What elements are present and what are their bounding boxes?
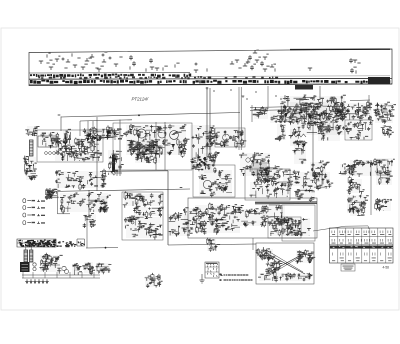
wire [57, 192, 59, 214]
junction [138, 114, 140, 116]
AVC filter parts [275, 124, 286, 141]
antenna input components [25, 126, 39, 136]
parts list strip [17, 239, 56, 247]
trimmer circles [246, 158, 250, 162]
wire [80, 120, 132, 121]
heavy screened lead [255, 201, 317, 203]
heater twin leads [238, 87, 240, 150]
plug contact marks [37, 200, 45, 224]
output grid parts [282, 218, 311, 236]
output tube envelope B [274, 263, 280, 269]
B+ supply bus wire [61, 113, 240, 118]
wire [319, 86, 321, 100]
antenna ground parts [25, 168, 38, 180]
second IF tube parts [308, 111, 332, 128]
junction [105, 247, 107, 249]
dial lamp feed parts [145, 273, 163, 288]
dial lamp socket 1 [23, 199, 26, 203]
audio output section enclosure [188, 198, 317, 238]
oscillator coil parts [215, 129, 247, 148]
tube V2 envelope [137, 129, 146, 138]
oscillator padder parts [253, 106, 269, 119]
detector box row 1 [123, 191, 164, 208]
wires to oscillator section [250, 107, 302, 108]
padder capacitor circle [223, 134, 230, 141]
interstage parts [206, 238, 220, 252]
wire [87, 121, 89, 136]
screen grid bus wire [100, 170, 168, 173]
RF amplifier V1 components [55, 137, 102, 161]
detector box row 2 [133, 205, 164, 218]
tone network parts [250, 180, 292, 198]
tiny marks left [100, 196, 108, 213]
label 6a [58, 115, 61, 116]
coupling parts right [339, 164, 357, 177]
output coupling pair B [375, 112, 394, 124]
wire [370, 160, 372, 215]
driver sub-enclosure [268, 217, 301, 238]
wire vertical from bus [60, 117, 62, 132]
wire [22, 274, 100, 276]
audio board row C [262, 205, 288, 227]
IF amp top components [345, 101, 372, 122]
phase splitter parts [256, 247, 276, 261]
right lower pair [375, 198, 392, 211]
pp right parts [295, 250, 315, 264]
connection code box [205, 262, 219, 278]
pilot lamp circles [33, 263, 36, 266]
right column parts [381, 125, 394, 138]
grid resistor group [63, 129, 71, 141]
chassis terminal strip panel outline [29, 49, 392, 86]
push-pull output enclosure [256, 243, 314, 284]
driver box parts [270, 219, 301, 237]
dial lamp socket 2 [23, 206, 26, 210]
terminal block [377, 160, 388, 175]
wire [252, 238, 254, 250]
tuning capacitor section [40, 132, 61, 148]
svg-text:PT2124/: PT2124/ [132, 97, 149, 102]
table header texture [333, 246, 393, 248]
wire [209, 88, 211, 160]
bias network row [60, 192, 111, 214]
wire [86, 218, 88, 248]
screen bypass capacitor group [87, 133, 101, 141]
band switch parts [205, 125, 215, 150]
phase inverter cross wires [266, 253, 305, 274]
tone control enclosure [245, 169, 290, 200]
cathode bias parts [292, 141, 307, 165]
ferrite rod antenna L1 [30, 140, 34, 156]
wire [251, 105, 253, 122]
IF transformer T2 [239, 152, 270, 178]
terminal strip capacitors and resistors [39, 50, 361, 74]
coil zigzag [291, 134, 306, 137]
socket top parts [45, 189, 57, 200]
tone cap parts [349, 206, 365, 216]
table lower cells [332, 253, 392, 262]
first audio V5 parts [198, 170, 232, 197]
driver input dense [254, 165, 283, 183]
switch wafer lower [204, 151, 220, 173]
dial lamp socket 3 [23, 213, 26, 217]
strip extension [57, 241, 77, 247]
converter stage enclosure [113, 123, 192, 170]
detector stage enclosure [122, 192, 163, 240]
IF stage dense section A [278, 95, 348, 122]
wire [155, 122, 157, 170]
ground symbol [200, 274, 205, 283]
pp bottom row [258, 271, 313, 282]
IF can core [252, 163, 269, 175]
stamped label below strip [295, 85, 313, 90]
volume control column [112, 150, 115, 172]
IF transformer T1 [190, 125, 215, 171]
output tube envelope A [268, 258, 275, 265]
ratio detector parts [350, 158, 379, 177]
mains transformer winding A [24, 246, 28, 262]
wire drops [23, 272, 94, 278]
screen dropper components [55, 169, 106, 191]
output transformer parts [300, 172, 333, 191]
label 5a [180, 187, 183, 188]
wire [96, 117, 98, 191]
tube V4 envelope [319, 114, 327, 122]
wire [321, 170, 323, 186]
dial lamp socket 4 [23, 221, 26, 225]
rectifier block [20, 262, 30, 272]
IF amplifier enclosure [345, 120, 372, 140]
neutralizing parts [317, 125, 342, 141]
RF input stage enclosure [37, 130, 103, 162]
filter parts [72, 263, 82, 275]
table pin tick marks [332, 231, 392, 244]
mains transformer winding B [30, 246, 33, 262]
output stage sub-enclosure [282, 205, 315, 241]
oscillator coil box [215, 128, 245, 147]
audio board row A [194, 203, 244, 235]
table footnote box [341, 264, 355, 271]
audio board row B [239, 208, 268, 227]
tuning gang box [38, 136, 57, 147]
chassis ground rail [25, 279, 48, 283]
svg-text:4-58: 4-58 [383, 266, 390, 270]
dark core marks [196, 156, 206, 170]
IF stage dense section B [288, 102, 347, 135]
legend note line 1 [220, 274, 248, 276]
IF transformer T3 interior [345, 120, 373, 140]
antenna coupling parts [23, 156, 37, 172]
oscillator grid parts [127, 139, 160, 153]
tube V3 envelope [158, 130, 166, 138]
wire [164, 122, 166, 170]
wire [350, 99, 370, 102]
switch contact circles [128, 219, 131, 222]
legend note line 2 [220, 274, 253, 281]
wiring tags below strip [206, 88, 307, 100]
wire [22, 277, 100, 279]
wire [209, 238, 211, 246]
first audio enclosure [193, 165, 235, 197]
electrolytic pair [62, 266, 66, 270]
AF coupling parts [183, 207, 204, 233]
wire [92, 121, 94, 140]
wire over voltage table [313, 226, 369, 231]
volume control wiring [108, 150, 124, 175]
terminal strip parts list text rows [29, 73, 392, 85]
IF can lower parts [310, 160, 330, 178]
terminal strip right [376, 158, 395, 185]
bias network left [45, 188, 61, 200]
feedback parts top [282, 170, 300, 188]
detector output parts [168, 212, 193, 237]
wire [116, 171, 118, 176]
detector box row 3 [124, 216, 162, 230]
fuse holder parts [82, 262, 95, 275]
small cathode parts [83, 213, 96, 228]
junction [116, 170, 118, 172]
converter cathode parts [135, 149, 163, 164]
detector diode parts [270, 109, 301, 124]
mixer V2 components [124, 124, 189, 158]
AF filter parts [347, 195, 369, 214]
wire [79, 121, 81, 136]
valve voltage table [330, 228, 394, 263]
AVC line wire [168, 244, 256, 245]
audio takeoff parts [347, 176, 365, 195]
speaker leads [294, 189, 315, 202]
voltage selector pair [96, 263, 112, 274]
lamp labels [27, 200, 35, 223]
wire [368, 95, 370, 105]
detector box row 4 [126, 227, 163, 240]
coupling circles [197, 213, 201, 217]
wire [206, 87, 208, 160]
output coupling pair A [373, 102, 396, 115]
oscillator tube envelope [170, 131, 179, 140]
decoupling network [83, 125, 126, 141]
wire [88, 190, 90, 218]
power switch parts [40, 253, 63, 274]
output cathode parts [265, 261, 282, 275]
IF decoupling parts [289, 128, 303, 147]
trimmer row [45, 152, 60, 155]
wire from strip [267, 86, 269, 107]
cathode return bus wire [47, 189, 190, 192]
wire [167, 171, 169, 245]
tube V5 envelope [203, 180, 211, 188]
wire [312, 110, 314, 176]
wire [86, 247, 118, 249]
small code box [77, 239, 85, 246]
wire [119, 120, 121, 177]
wire [58, 213, 71, 215]
